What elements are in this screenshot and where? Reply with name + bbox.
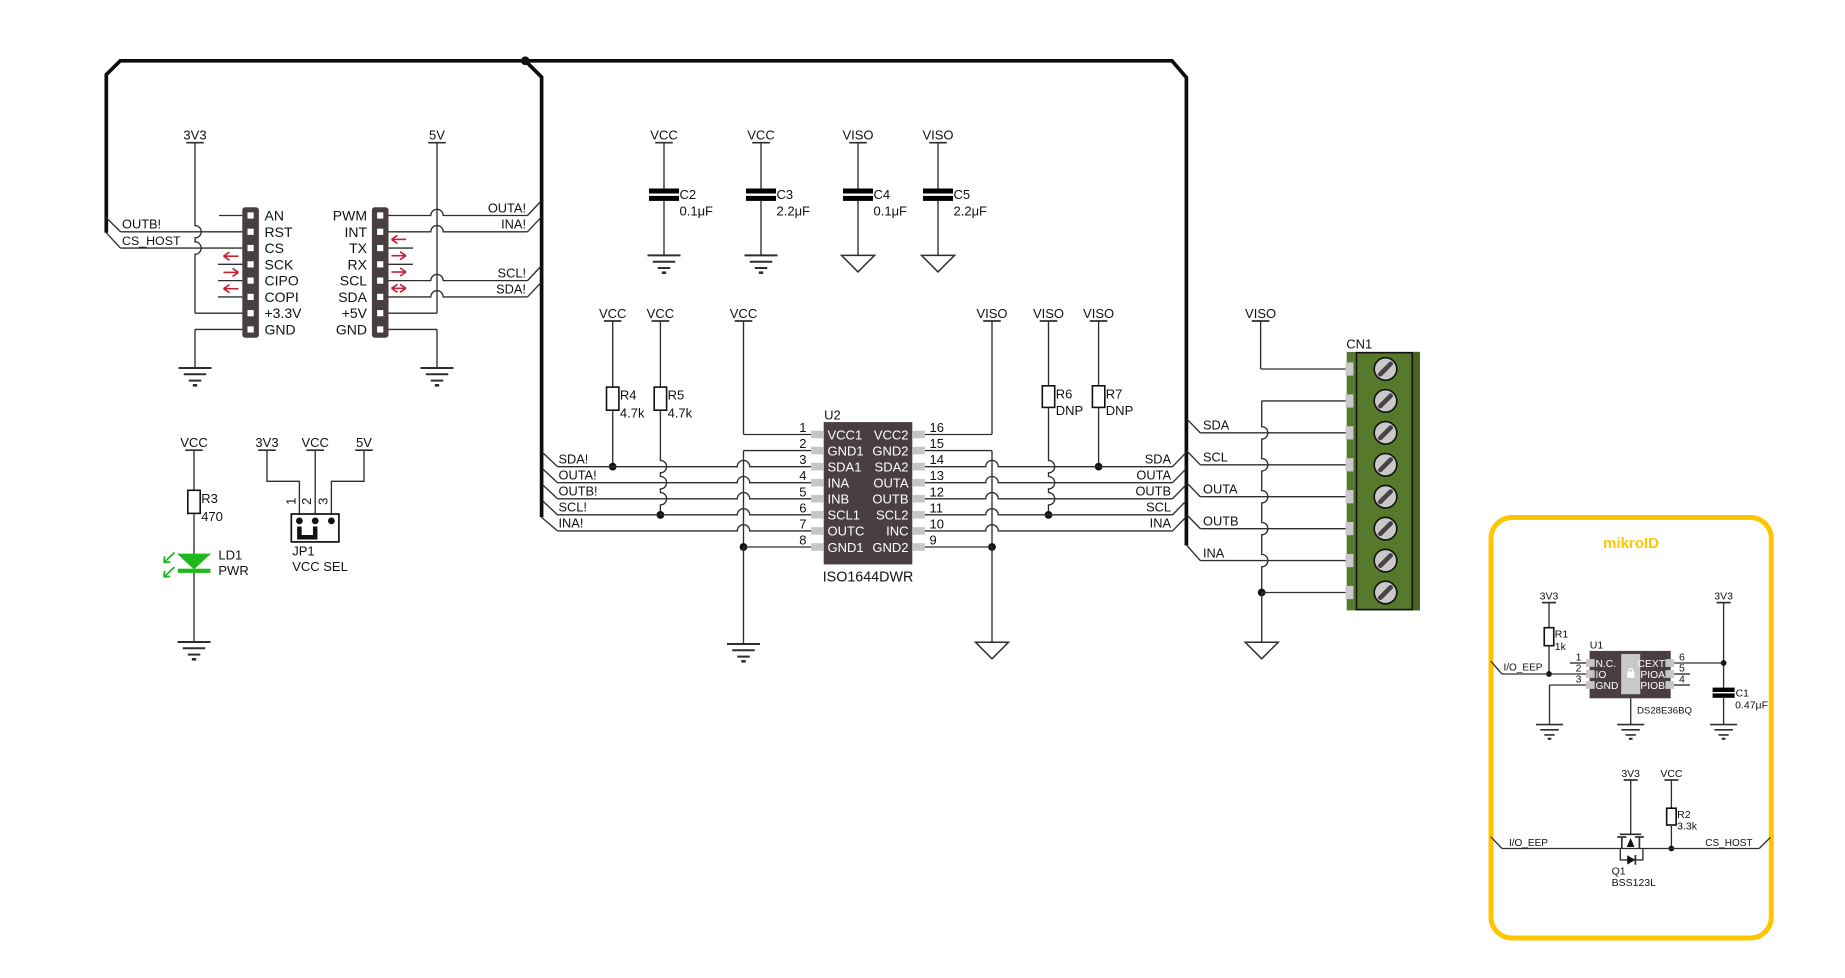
svg-text:2: 2: [299, 498, 314, 505]
svg-text:SCL1: SCL1: [828, 508, 861, 523]
svg-text:4.7k: 4.7k: [620, 406, 645, 421]
svg-text:8: 8: [799, 532, 806, 547]
svg-text:OUTB: OUTB: [1203, 513, 1239, 528]
svg-text:BSS123L: BSS123L: [1612, 877, 1657, 889]
svg-text:VCC: VCC: [1660, 768, 1683, 780]
svg-text:OUTA: OUTA: [1136, 468, 1171, 483]
svg-text:GND: GND: [265, 321, 296, 337]
svg-text:C4: C4: [874, 187, 891, 202]
svg-text:VCC: VCC: [650, 128, 677, 143]
svg-text:3: 3: [799, 452, 806, 467]
svg-text:U2: U2: [824, 407, 841, 422]
svg-text:DNP: DNP: [1106, 403, 1133, 418]
svg-text:C3: C3: [777, 187, 794, 202]
svg-text:SDA2: SDA2: [875, 459, 909, 474]
svg-text:IO: IO: [1596, 670, 1607, 681]
svg-text:VISO: VISO: [1083, 306, 1114, 321]
svg-text:GND2: GND2: [872, 540, 908, 555]
svg-text:16: 16: [930, 420, 944, 435]
svg-text:I/O_EEP: I/O_EEP: [1504, 663, 1543, 674]
svg-text:3V3: 3V3: [183, 128, 206, 143]
svg-text:3: 3: [315, 498, 330, 505]
svg-text:PWM: PWM: [333, 208, 367, 224]
svg-text:3V3: 3V3: [1714, 590, 1733, 602]
svg-text:Q1: Q1: [1612, 866, 1626, 878]
svg-text:TX: TX: [349, 240, 368, 256]
svg-text:SCL!: SCL!: [498, 265, 526, 280]
svg-text:N.C.: N.C.: [1596, 659, 1617, 670]
svg-text:2.2μF: 2.2μF: [777, 204, 811, 219]
svg-text:VISO: VISO: [842, 128, 873, 143]
svg-text:VISO: VISO: [922, 128, 953, 143]
svg-text:OUTA!: OUTA!: [488, 200, 526, 215]
svg-text:12: 12: [930, 484, 944, 499]
svg-text:11: 11: [930, 500, 944, 515]
svg-text:4.7k: 4.7k: [668, 406, 693, 421]
svg-text:1: 1: [283, 498, 298, 505]
svg-text:PIOA: PIOA: [1640, 670, 1665, 681]
svg-text:INA: INA: [828, 476, 850, 491]
svg-text:VISO: VISO: [1033, 306, 1064, 321]
svg-text:VCC: VCC: [730, 306, 757, 321]
svg-text:SDA: SDA: [1145, 451, 1172, 466]
svg-text:PIOB: PIOB: [1640, 681, 1665, 692]
svg-text:SDA1: SDA1: [828, 459, 862, 474]
svg-text:0.1μF: 0.1μF: [874, 204, 908, 219]
svg-text:7: 7: [799, 516, 806, 531]
svg-text:INC: INC: [886, 524, 908, 539]
svg-text:13: 13: [930, 468, 944, 483]
svg-text:mikroID: mikroID: [1603, 535, 1659, 552]
svg-text:OUTB!: OUTB!: [122, 217, 161, 232]
svg-text:5V: 5V: [356, 435, 372, 450]
svg-text:4: 4: [799, 468, 806, 483]
svg-text:14: 14: [930, 452, 944, 467]
svg-text:JP1: JP1: [292, 544, 314, 559]
svg-text:OUTB: OUTB: [1135, 484, 1171, 499]
svg-text:OUTB!: OUTB!: [559, 484, 598, 499]
svg-text:GND1: GND1: [828, 540, 864, 555]
svg-text:C5: C5: [954, 187, 971, 202]
svg-text:SCL!: SCL!: [559, 500, 587, 515]
svg-text:470: 470: [201, 509, 223, 524]
svg-text:R4: R4: [620, 388, 637, 403]
svg-text:C1: C1: [1736, 687, 1750, 699]
svg-text:LD1: LD1: [218, 548, 242, 563]
svg-text:INT: INT: [344, 224, 367, 240]
svg-text:3V3: 3V3: [255, 435, 278, 450]
svg-text:CIPO: CIPO: [265, 273, 299, 289]
svg-text:CS_HOST: CS_HOST: [122, 234, 181, 248]
svg-text:3: 3: [1576, 674, 1582, 686]
svg-text:R3: R3: [201, 491, 218, 506]
svg-text:R5: R5: [668, 388, 685, 403]
svg-text:OUTC: OUTC: [828, 524, 865, 539]
svg-text:1k: 1k: [1555, 641, 1567, 653]
svg-text:INA!: INA!: [501, 217, 526, 232]
svg-text:CS_HOST: CS_HOST: [1705, 838, 1752, 849]
svg-text:15: 15: [930, 436, 944, 451]
svg-text:CN1: CN1: [1346, 337, 1372, 352]
svg-text:VISO: VISO: [976, 306, 1007, 321]
svg-text:SDA!: SDA!: [496, 282, 526, 297]
svg-text:VCC SEL: VCC SEL: [292, 559, 348, 574]
svg-text:5V: 5V: [429, 128, 445, 143]
svg-text:I/O_EEP: I/O_EEP: [1509, 838, 1548, 849]
svg-text:VCC2: VCC2: [874, 427, 909, 442]
svg-text:INA!: INA!: [559, 516, 584, 531]
svg-text:3V3: 3V3: [1540, 590, 1559, 602]
svg-text:10: 10: [930, 516, 944, 531]
svg-text:4: 4: [1679, 674, 1685, 686]
svg-text:0.47μF: 0.47μF: [1735, 699, 1768, 711]
svg-text:SCL: SCL: [340, 273, 367, 289]
svg-text:GND2: GND2: [872, 443, 908, 458]
svg-text:R2: R2: [1677, 809, 1691, 821]
svg-text:DS28E36BQ: DS28E36BQ: [1637, 706, 1692, 717]
svg-text:OUTA: OUTA: [873, 476, 908, 491]
svg-text:INA: INA: [1203, 545, 1225, 560]
svg-text:SCL: SCL: [1203, 450, 1228, 465]
svg-text:1: 1: [799, 420, 806, 435]
svg-text:DNP: DNP: [1056, 403, 1083, 418]
svg-text:R7: R7: [1106, 386, 1123, 401]
svg-text:SCK: SCK: [265, 256, 294, 272]
svg-text:INB: INB: [828, 492, 850, 507]
svg-text:VCC: VCC: [301, 435, 328, 450]
svg-text:CEXT: CEXT: [1638, 659, 1666, 670]
svg-text:SDA: SDA: [1203, 418, 1230, 433]
svg-text:9: 9: [930, 532, 937, 547]
svg-text:GND: GND: [336, 321, 367, 337]
svg-text:VCC: VCC: [180, 435, 207, 450]
svg-text:VISO: VISO: [1245, 306, 1276, 321]
svg-text:INA: INA: [1150, 516, 1172, 531]
svg-text:+5V: +5V: [342, 305, 368, 321]
svg-text:5: 5: [799, 484, 806, 499]
svg-text:OUTA!: OUTA!: [559, 468, 597, 483]
svg-text:VCC: VCC: [647, 306, 674, 321]
svg-text:OUTA: OUTA: [1203, 482, 1238, 497]
svg-text:2.2μF: 2.2μF: [954, 204, 988, 219]
svg-text:GND: GND: [1596, 681, 1619, 692]
svg-text:SCL2: SCL2: [876, 508, 909, 523]
svg-text:GND1: GND1: [828, 443, 864, 458]
svg-text:6: 6: [799, 500, 806, 515]
svg-text:R1: R1: [1555, 629, 1569, 641]
svg-text:0.1μF: 0.1μF: [680, 204, 714, 219]
svg-text:SCL: SCL: [1146, 500, 1171, 515]
svg-text:RX: RX: [348, 256, 368, 272]
svg-text:VCC: VCC: [747, 128, 774, 143]
svg-text:+3.3V: +3.3V: [265, 305, 303, 321]
svg-text:PWR: PWR: [218, 563, 248, 578]
svg-text:VCC: VCC: [599, 306, 626, 321]
svg-text:2: 2: [799, 436, 806, 451]
svg-text:C2: C2: [680, 187, 697, 202]
svg-text:AN: AN: [265, 208, 284, 224]
svg-text:ISO1644DWR: ISO1644DWR: [823, 570, 914, 586]
svg-text:CS: CS: [265, 240, 284, 256]
svg-text:3V3: 3V3: [1621, 768, 1640, 780]
svg-text:R6: R6: [1056, 386, 1073, 401]
svg-text:OUTB: OUTB: [872, 492, 908, 507]
svg-text:VCC1: VCC1: [828, 427, 863, 442]
svg-text:RST: RST: [265, 224, 293, 240]
svg-text:SDA!: SDA!: [559, 451, 589, 466]
svg-text:COPI: COPI: [265, 289, 299, 305]
svg-text:U1: U1: [1590, 639, 1604, 651]
svg-text:SDA: SDA: [338, 289, 367, 305]
svg-text:3.3k: 3.3k: [1677, 821, 1698, 833]
